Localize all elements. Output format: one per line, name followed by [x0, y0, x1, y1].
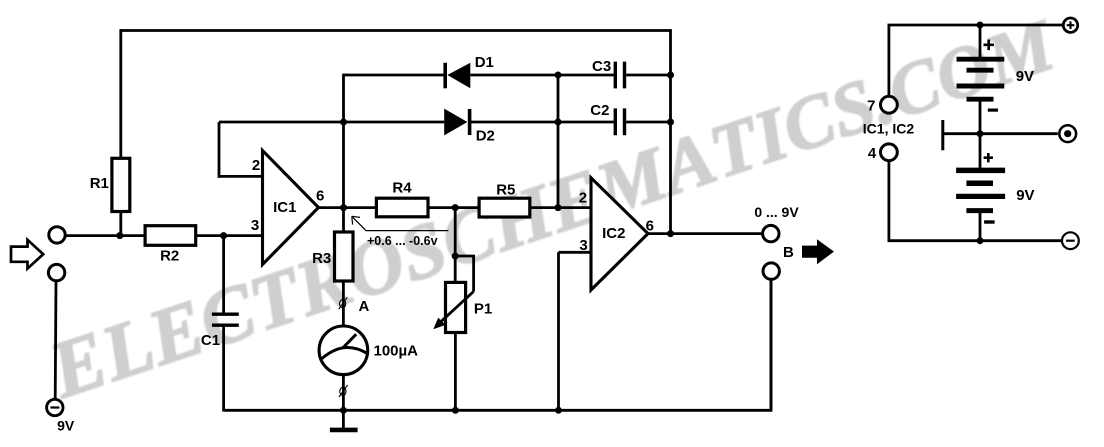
annotation leader arrow — [352, 216, 449, 230]
wire R1 top riser — [119, 29, 122, 158]
op-amp IC2 — [591, 178, 648, 290]
wire right riser top rail to output — [669, 29, 672, 234]
svg-text:6: 6 — [316, 188, 324, 205]
node pin3 riser rail junction — [555, 407, 562, 414]
wire meter to rail — [342, 374, 345, 412]
potentiometer P1 — [446, 282, 466, 332]
node P1 wiper junction — [452, 253, 459, 260]
diode D1 — [445, 63, 470, 89]
wire D1 line left — [344, 74, 444, 77]
svg-text:P1: P1 — [474, 301, 492, 318]
terminal battery minus — [1062, 232, 1079, 249]
svg-text:3: 3 — [579, 237, 587, 254]
battery B2 minus sign — [984, 220, 995, 223]
node riser R5 line junction — [555, 204, 562, 211]
terminal output B — [763, 263, 779, 279]
wire pin4 down — [888, 160, 891, 240]
svg-text:R1: R1 — [90, 175, 109, 192]
wire top rail — [121, 29, 671, 32]
svg-text:9V: 9V — [1016, 68, 1034, 85]
terminal output A — [763, 225, 779, 241]
wire bottom rail to terminal B — [224, 280, 771, 410]
wire R4 to R5 — [428, 206, 479, 209]
terminal 9V minus sign — [50, 406, 59, 408]
wire IC2 pin3 horizontal — [559, 251, 592, 254]
resistor R3 — [335, 232, 354, 281]
terminal pin7 — [881, 96, 898, 113]
wire battery top rail — [888, 24, 1064, 27]
node D2 line riser junction — [340, 119, 347, 126]
wire D2 to C2 — [471, 121, 614, 124]
svg-text:R2: R2 — [160, 248, 179, 265]
wire IC2 pin3 riser to rail — [557, 252, 560, 411]
resistor R4 — [376, 198, 428, 217]
wire riser pin6 node to D1 line — [342, 74, 345, 208]
wire input lower to 9V minus — [54, 281, 58, 400]
battery B2 plus sign — [984, 153, 993, 162]
node C2 right junction — [667, 119, 674, 126]
wire pin7 to top rail — [888, 25, 891, 97]
svg-text:3: 3 — [251, 217, 259, 234]
svg-text:A: A — [358, 298, 369, 315]
node battery middle junction — [977, 130, 984, 137]
svg-text:B: B — [783, 244, 794, 261]
wire battery bottom rail — [888, 239, 1063, 242]
svg-text:7: 7 — [867, 98, 875, 115]
node battery top junction — [977, 22, 984, 29]
node P1 rail junction — [452, 407, 459, 414]
meter lead mark lower — [339, 385, 348, 397]
svg-text:R5: R5 — [496, 181, 515, 198]
diode D2 — [444, 109, 469, 136]
meter M1 body — [319, 326, 368, 375]
output arrow — [802, 239, 834, 264]
svg-text:4: 4 — [868, 145, 877, 162]
wire IC1 pin2 riser — [218, 122, 221, 178]
wire node to R3 — [342, 208, 345, 232]
wire R3 to meter — [342, 281, 345, 327]
wire middle tap line — [944, 132, 1058, 135]
meter M1 scale arc — [322, 348, 367, 359]
battery middle tap bar — [941, 120, 944, 150]
terminal battery plus — [1063, 18, 1077, 32]
svg-text:100µA: 100µA — [374, 343, 419, 360]
wire R5 to IC2 pin2 — [530, 206, 591, 209]
svg-text:6: 6 — [646, 218, 654, 235]
battery B2 plate long bottom — [956, 194, 1005, 199]
svg-text:IC1: IC1 — [273, 199, 296, 216]
node C3 right junction — [667, 72, 674, 79]
wire R2 to IC1 pin3 — [196, 234, 263, 237]
wire IC1 out to R4 — [319, 206, 377, 209]
svg-text:D1: D1 — [475, 54, 494, 71]
terminal battery zero — [1059, 125, 1076, 142]
meter M1 needle — [343, 334, 356, 347]
meter lead mark upper — [339, 297, 348, 309]
wire P1 wiper loop — [455, 256, 473, 292]
potentiometer P1 wiper arrow — [433, 292, 473, 330]
svg-text:0 ... 9V: 0 ... 9V — [754, 204, 799, 220]
wire battery1 bottom lead — [979, 101, 982, 134]
battery B1 plate long top — [957, 57, 1005, 62]
battery B1 plate short — [967, 68, 994, 73]
node battery bottom junction — [977, 237, 984, 244]
svg-text:R4: R4 — [392, 180, 412, 197]
terminal input upper — [49, 227, 65, 243]
node C1 junction — [220, 232, 227, 239]
battery B1 plate long bottom — [957, 84, 1005, 89]
wire battery2 bottom lead — [979, 212, 982, 241]
node IC1 output — [340, 204, 347, 211]
svg-text:C3: C3 — [592, 58, 611, 75]
resistor R5 — [479, 198, 530, 217]
wire P1 to rail — [454, 333, 457, 412]
terminal pin4 — [881, 144, 898, 161]
svg-text:IC2: IC2 — [602, 225, 625, 242]
node meter ground rail junction — [340, 407, 347, 414]
svg-text:2: 2 — [579, 189, 587, 206]
terminal input lower — [48, 264, 64, 280]
node R4 R5 junction — [452, 204, 459, 211]
wire battery1 top lead — [979, 25, 982, 57]
svg-text:R3: R3 — [312, 250, 331, 267]
battery B2 plate short — [966, 181, 993, 187]
wire IC2 output to terminal — [648, 232, 763, 235]
svg-text:C2: C2 — [590, 102, 609, 119]
node D2 C2 junction — [555, 119, 562, 126]
wire battery2 top lead — [979, 134, 982, 168]
capacitor C1 — [212, 314, 239, 325]
terminal 9V minus — [47, 399, 63, 415]
capacitor C3 — [615, 62, 624, 89]
svg-text:9V: 9V — [1016, 187, 1034, 204]
node feedback output junction — [667, 230, 674, 237]
wire riser diodes to R5 line — [557, 75, 560, 208]
battery B1 minus sign — [988, 108, 998, 111]
wire D1 to C3 — [470, 74, 613, 77]
svg-text:2: 2 — [252, 157, 260, 174]
svg-text:9V: 9V — [57, 418, 75, 434]
wire C1 top lead — [222, 236, 225, 315]
resistor R2 — [145, 226, 196, 246]
battery B2 plate long top — [956, 168, 1005, 174]
svg-text:+0.6 ... -0.6v: +0.6 ... -0.6v — [367, 234, 438, 248]
battery B1 plate short bottom — [967, 97, 994, 102]
wire C3 to right riser — [626, 74, 670, 77]
wire IC1 pin2 horizontal — [219, 175, 263, 178]
wire R4R5 node to P1 — [454, 208, 457, 283]
wire C2 to right riser — [626, 121, 670, 124]
battery B1 plus sign — [984, 40, 995, 51]
node input R1 junction — [116, 232, 123, 239]
wire D2 anode line — [219, 121, 444, 124]
wire C1 bottom lead — [222, 325, 225, 411]
op-amp IC1 — [263, 151, 319, 265]
svg-text:C1: C1 — [201, 332, 220, 349]
battery B2 plate short bottom — [966, 208, 993, 213]
capacitor C2 — [615, 108, 624, 135]
resistor R1 — [112, 158, 130, 211]
input arrow — [11, 240, 43, 269]
wire input to R2 — [66, 234, 145, 237]
svg-text:D2: D2 — [476, 128, 495, 145]
wire R1 bottom riser — [119, 212, 122, 236]
wire terminal B riser — [770, 280, 773, 410]
node D1 C3 junction — [555, 72, 562, 79]
svg-text:IC1, IC2: IC1, IC2 — [863, 121, 915, 137]
ground — [330, 410, 358, 430]
